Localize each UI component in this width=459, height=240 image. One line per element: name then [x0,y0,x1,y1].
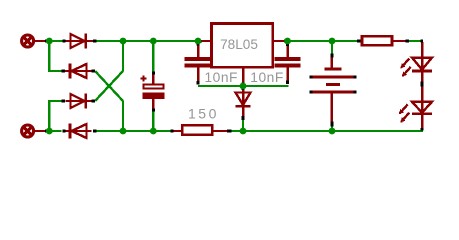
svg-text:78L05: 78L05 [220,37,258,52]
svg-text:10nF: 10nF [205,70,238,85]
svg-text:10nF: 10nF [250,70,283,85]
svg-text:150: 150 [188,105,219,121]
